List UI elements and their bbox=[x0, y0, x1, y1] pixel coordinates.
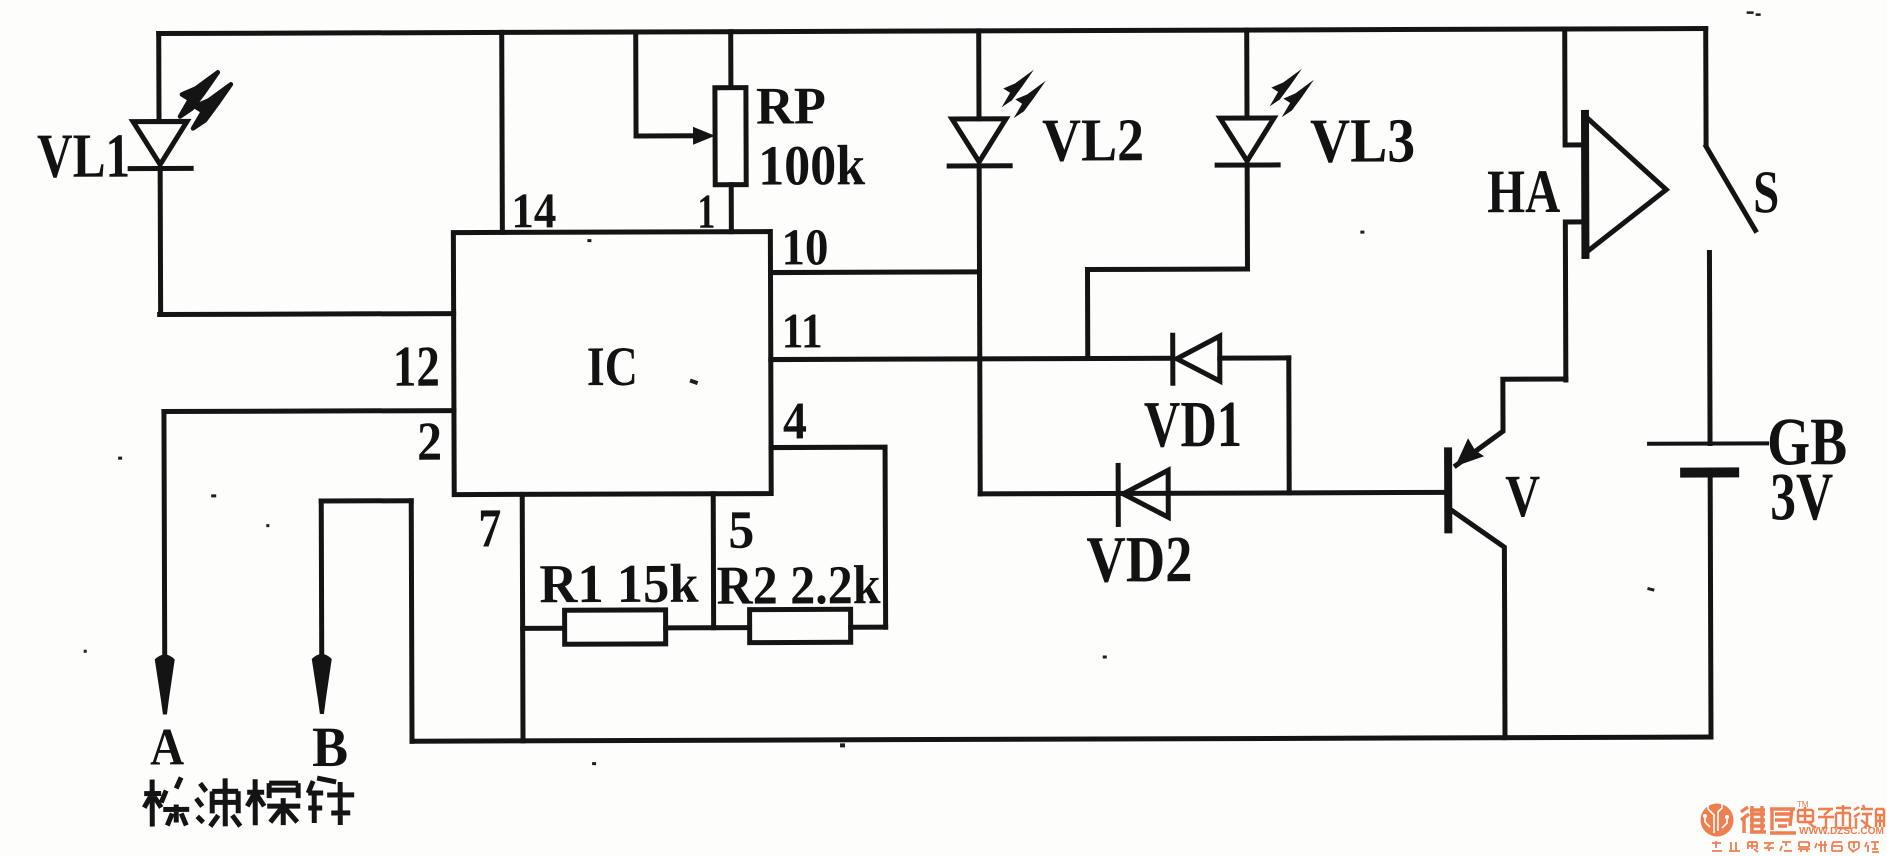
wire pin 14 bbox=[499, 32, 505, 232]
wire base rail bbox=[980, 492, 1449, 494]
scan specks bbox=[82, 11, 1763, 766]
wire RP wiper bbox=[636, 32, 715, 145]
svg-text:RP: RP bbox=[756, 77, 826, 135]
svg-text:10: 10 bbox=[781, 219, 828, 276]
wire pin 2 bbox=[164, 408, 454, 414]
svg-text:VD1: VD1 bbox=[1144, 388, 1242, 461]
svg-text:WWW.DZSC.COM: WWW.DZSC.COM bbox=[1799, 826, 1884, 837]
wire pin 7 bbox=[520, 494, 526, 740]
svg-text:3V: 3V bbox=[1770, 458, 1833, 534]
label detection probe (Chinese) bbox=[144, 777, 354, 827]
svg-text:VL2: VL2 bbox=[1042, 107, 1144, 174]
svg-text:1: 1 bbox=[697, 184, 715, 239]
wire top rail bbox=[159, 29, 1706, 34]
buzzer HA bbox=[1565, 29, 1667, 380]
svg-text:7: 7 bbox=[478, 497, 501, 558]
svg-text:V: V bbox=[1505, 463, 1540, 529]
LED VL1 bbox=[130, 72, 232, 314]
wire pin 10 bbox=[770, 269, 979, 275]
svg-text:100k: 100k bbox=[758, 134, 865, 197]
svg-text:2: 2 bbox=[417, 411, 442, 472]
watermark brand text bbox=[1741, 806, 1796, 833]
transistor V bbox=[1448, 379, 1567, 738]
svg-text:IC: IC bbox=[587, 336, 638, 398]
battery GB 3V bbox=[1649, 443, 1768, 737]
potentiometer RP 100k bbox=[715, 32, 747, 232]
watermark slogan bbox=[1712, 841, 1879, 852]
wire VL3 to pin 11 node bbox=[1087, 269, 1247, 359]
svg-text:R1 15k: R1 15k bbox=[539, 553, 699, 615]
LED VL2 bbox=[949, 31, 1047, 494]
wire VD1 to base rail bbox=[1286, 358, 1291, 493]
watermark logo circle bbox=[1701, 800, 1734, 837]
wire pin 11 bbox=[771, 358, 1171, 359]
svg-text:VL1: VL1 bbox=[37, 121, 130, 191]
resistor R2 2.2k bbox=[750, 609, 886, 642]
wire pin 4 bbox=[771, 447, 886, 627]
svg-text:5: 5 bbox=[728, 500, 754, 560]
wire bottom rail bbox=[412, 737, 1711, 741]
diode VD2 bbox=[1118, 465, 1168, 524]
svg-text:HA: HA bbox=[1487, 158, 1560, 226]
svg-text:14: 14 bbox=[511, 182, 556, 238]
resistor R1 15k bbox=[523, 610, 750, 645]
switch S bbox=[1706, 28, 1756, 443]
svg-text:A: A bbox=[150, 718, 184, 776]
svg-text:S: S bbox=[1753, 159, 1779, 226]
diode VD1 bbox=[1173, 335, 1289, 383]
probe B bbox=[311, 501, 412, 742]
IC U1 box bbox=[453, 232, 771, 495]
svg-text:TM: TM bbox=[1797, 800, 1809, 809]
wire pin 5 bbox=[711, 494, 716, 628]
LED VL3 bbox=[1217, 30, 1315, 269]
svg-text:B: B bbox=[312, 716, 348, 779]
wire VL1 anode bbox=[156, 34, 161, 122]
svg-text:VD2: VD2 bbox=[1086, 523, 1192, 596]
wire pin 12 to VL1 bbox=[160, 311, 454, 317]
svg-text:12: 12 bbox=[393, 334, 440, 399]
probe A bbox=[154, 411, 175, 714]
svg-text:R2 2.2k: R2 2.2k bbox=[716, 554, 881, 616]
svg-text:4: 4 bbox=[783, 392, 807, 450]
svg-text:VL3: VL3 bbox=[1310, 105, 1415, 175]
svg-text:11: 11 bbox=[782, 302, 823, 358]
